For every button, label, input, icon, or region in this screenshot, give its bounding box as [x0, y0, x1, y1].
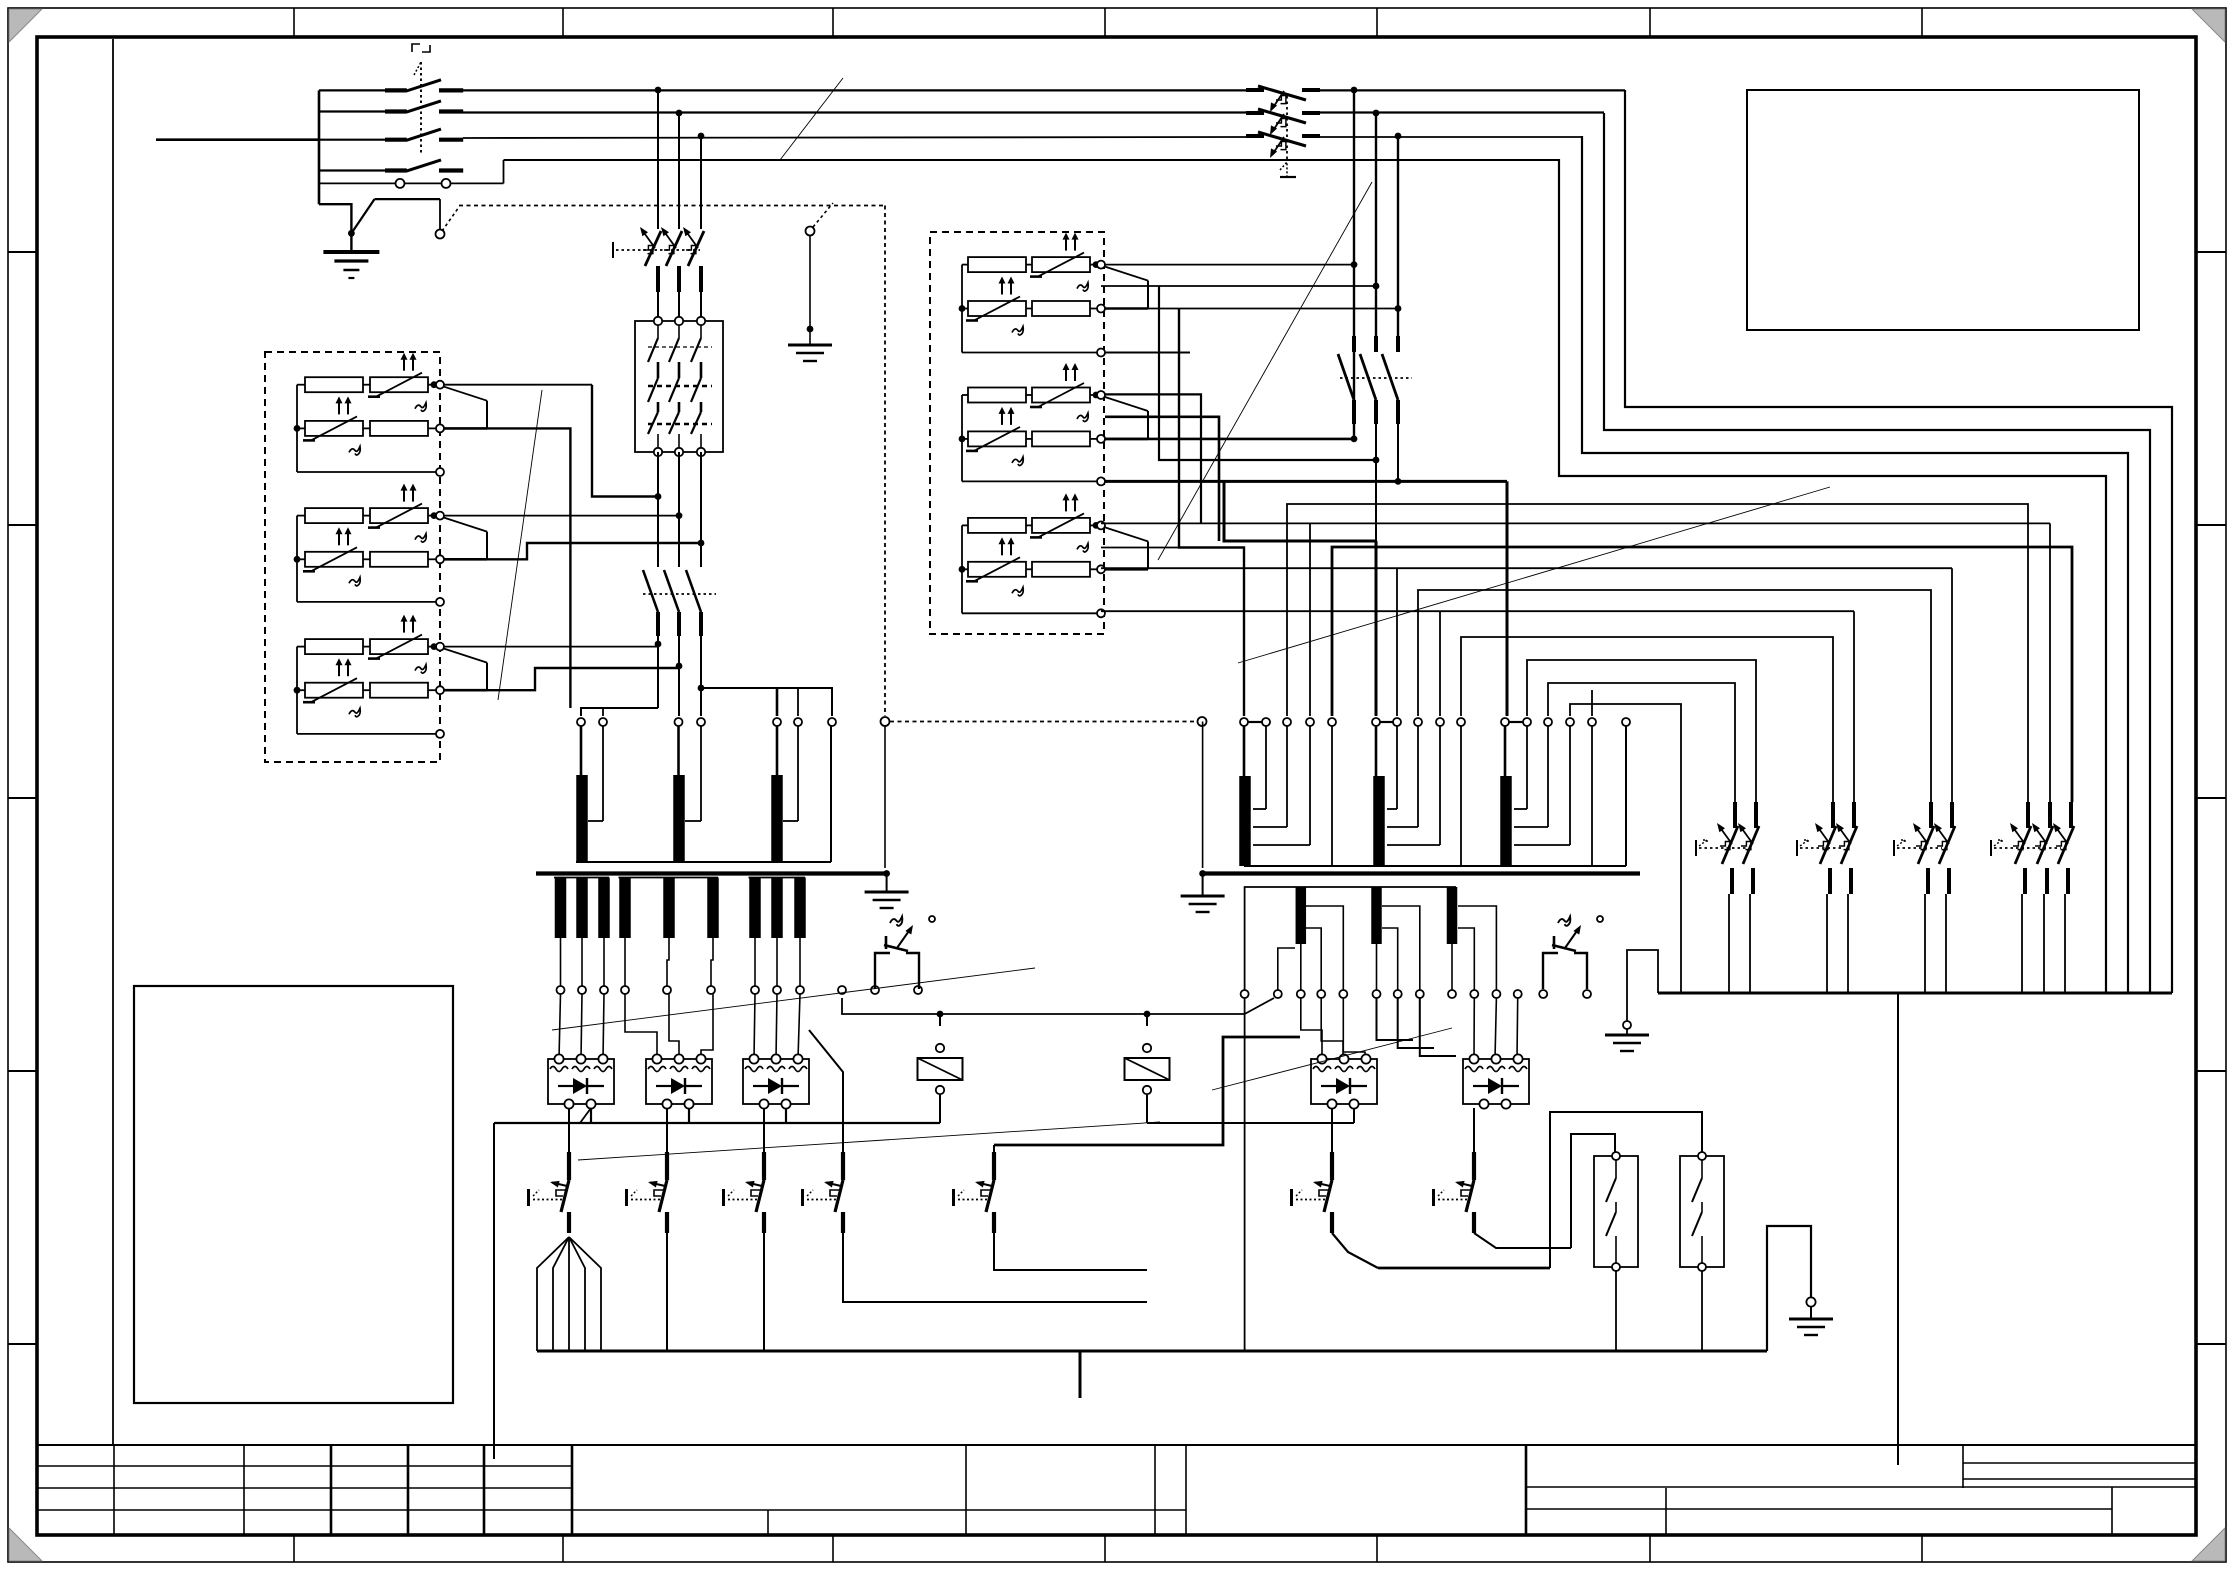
T1 primary terminals [577, 718, 585, 726]
Q2 linkage dotted [1286, 96, 1288, 162]
middle box group 3 [959, 493, 1148, 617]
columns to transformer terminals [657, 636, 659, 708]
dashed branch switch at x808 [806, 227, 815, 236]
Q4 linkage dotted [616, 249, 700, 251]
bus taps for converter transformer T1 [655, 87, 662, 94]
arc wire 1 [1287, 504, 2028, 802]
middle box group3 links [1101, 547, 1179, 549]
elbow link to winding W1 feed [1179, 309, 1244, 717]
breaker QF7 [1434, 1152, 1475, 1233]
breaker QF5 [993, 1145, 995, 1152]
T2 secondary leads [1300, 944, 1302, 990]
title block top line [37, 1444, 2196, 1446]
T2 core bus bar [1203, 871, 1640, 875]
plain drop 1681 [1680, 802, 1682, 993]
relay K3 [1146, 1014, 1148, 1026]
tap T1 from L1 [1351, 87, 1358, 94]
main disconnect switch QS1 [385, 88, 407, 92]
extra terminals near T1 [838, 986, 846, 994]
bus line L2 [319, 110, 385, 112]
earthing switch blade [351, 199, 374, 233]
bus line L3 [319, 139, 385, 141]
U4 bottom leads [1331, 1108, 1333, 1158]
rectifier box U3 [743, 1054, 809, 1108]
U1 output leads [568, 1108, 570, 1158]
tap T3 from L3 [1395, 133, 1402, 140]
stub terminal [1591, 690, 1593, 716]
frame corner triangles [9, 9, 42, 42]
earth link to collector [1627, 950, 1658, 1021]
title block rows left [37, 1465, 572, 1467]
T2 primary bottom return [1244, 865, 1626, 867]
arc wire 2 [1101, 522, 2050, 524]
W2 tap conductor [700, 726, 702, 821]
bus L1 corner loop [1625, 90, 2172, 993]
elbow link to tap T2 lower [1159, 286, 1376, 460]
feeder group at 1696 [1717, 802, 1738, 894]
link y666 from left box g3 horn [487, 668, 679, 690]
arc wire 5 [1418, 590, 1931, 802]
T2 terminal row [1240, 718, 1248, 726]
QF7 outlet [1474, 1233, 1571, 1248]
breaker QF2 [627, 1152, 668, 1233]
station earth E1 [323, 252, 379, 278]
collector right earth [1767, 1226, 1811, 1351]
title block columns left [113, 1445, 115, 1535]
dc link drop at x494 [493, 1123, 495, 1459]
control line dashed to right [442, 207, 459, 231]
breaker QF4 [803, 1152, 844, 1233]
arc wire 9 [1548, 683, 1735, 802]
T1 return riser [830, 726, 832, 862]
T1 secondary leads [560, 938, 562, 986]
tap T2 from L2 [1373, 110, 1380, 117]
distribution collector [1658, 992, 2172, 995]
control link circle at T1 [881, 717, 890, 726]
auxiliary switch with open contacts [319, 182, 395, 184]
rectifier box U5 [1463, 1054, 1529, 1108]
T1 primary winding W1 [580, 726, 583, 775]
QF1 cable fan [537, 1237, 569, 1351]
link from left box g2 to column B [444, 515, 679, 517]
T2 secondary winding bars [1296, 887, 1307, 944]
arc wire 3 [1332, 547, 2072, 802]
T2 primary winding W2 [1375, 726, 1378, 776]
switch cell A [1594, 1156, 1638, 1267]
cell outlets to collector [1615, 1271, 1617, 1351]
link risers to switch cells [1550, 1112, 1702, 1268]
load switch S2 [1543, 916, 1587, 989]
frame zone ticks right [2196, 251, 2226, 253]
T2 primary winding W1 [1243, 726, 1246, 776]
QF5 outlet stub [994, 1233, 1147, 1270]
middle box group1 links to taps [1351, 261, 1358, 268]
middle box group2 links [1101, 394, 1201, 523]
U3 output leads [763, 1108, 765, 1158]
QF4 outlet stub [843, 1233, 1147, 1302]
cabinet outline rectangle [134, 986, 453, 1403]
feeder group at 1991 [2010, 802, 2031, 894]
relay K2 [939, 1014, 941, 1026]
switch cell B [1680, 1156, 1724, 1267]
QS1 linkage dotted [420, 62, 422, 155]
U5 bottom leads [1473, 1108, 1475, 1158]
long drop x1898 [1897, 993, 1899, 1465]
frame zone ticks top [293, 8, 295, 37]
dc link right [1147, 1122, 1354, 1124]
T2 leads to rectifier boxes [1301, 998, 1322, 1059]
feeder group at 1797 [1815, 802, 1836, 894]
disconnect trio Q3 [1352, 336, 1356, 352]
left box group 1 [294, 353, 487, 476]
title block middle cells [572, 1509, 1186, 1511]
breaker QF3 [724, 1152, 765, 1233]
T1 secondary group rails [554, 877, 609, 879]
QS1 actuator bracket [412, 44, 420, 52]
arc wire 4 [1101, 567, 1952, 569]
Q2 linkage end mark [1280, 162, 1287, 176]
W3 tap conductor [797, 726, 799, 821]
T1 primary winding W2 [677, 726, 680, 775]
leads from terminals to rectifier boxes [559, 994, 561, 1059]
T2 bus earth [1202, 874, 1204, 897]
QF6 outlet [1332, 1233, 1378, 1268]
dc link line left [494, 1122, 940, 1124]
earth at dashed branch [788, 345, 832, 361]
T1 primary bottom return [576, 861, 831, 863]
breaker QF6 [1292, 1152, 1333, 1233]
rectifier box U2 [646, 1054, 712, 1108]
feeder group at 1894 [1913, 802, 1934, 894]
middle box group1 return stub [1101, 352, 1190, 354]
Q3 linkage dotted [1340, 377, 1412, 379]
left surge resistor cabinet dashed box [265, 352, 440, 762]
middle box group 2 [959, 363, 1148, 485]
aux line rise to L4 [503, 160, 505, 183]
arc wire 8 [1527, 660, 1756, 802]
T2 return riser [1625, 726, 1627, 866]
link from left box g2 horn to column C [487, 543, 701, 559]
T2 secondary rail [1245, 887, 1456, 994]
switchgear box K1 [635, 321, 723, 452]
arc wire 6 [1101, 610, 1854, 612]
jog column A to winding 1 [581, 708, 658, 716]
disconnect trio Q5 below K1 [657, 560, 659, 567]
link y688 to return riser [701, 688, 832, 716]
control line y1014 [842, 998, 1245, 1014]
bus L2 corner loop [1604, 113, 2150, 993]
frame zone ticks bottom [293, 1535, 295, 1562]
breaker trio Q4 on T1 feed [645, 231, 661, 266]
bus line L4 [319, 169, 385, 171]
diagonal to transformer terminal [1245, 998, 1274, 1014]
T2 secondary jogs [1306, 906, 1343, 990]
left box group 3 [294, 615, 487, 738]
arc wire 10 [1570, 704, 1681, 802]
legend rectangle [1747, 90, 2139, 330]
U2 output leads [666, 1108, 668, 1158]
W1 tap conductor [602, 726, 604, 821]
T1 core bus bar [536, 871, 887, 875]
bus L4 corner loop [1559, 159, 2106, 993]
spare leads [1377, 998, 1414, 1040]
heavy dc link [1378, 1267, 1550, 1270]
title block right cells [1525, 1445, 1528, 1535]
bus line L1 [319, 89, 385, 91]
W2 conductors [1396, 726, 1398, 809]
arc wire 7 [1461, 637, 1833, 802]
T1 bus earth [886, 874, 888, 893]
load switch S1 [875, 916, 919, 989]
heavy feed from middle box to T2 windings [1395, 478, 1402, 485]
T2 secondary terminals [1241, 990, 1249, 998]
feeder stub into bus [156, 138, 319, 141]
rectifier box U4 [1311, 1054, 1377, 1108]
taps continue below Q3 [1375, 424, 1377, 541]
left box group 2 [294, 484, 487, 606]
earthing branch of bus [319, 204, 351, 233]
middle box group 1 [959, 233, 1148, 357]
bus tie bracket [318, 90, 321, 204]
T1 primary winding W3 [776, 726, 779, 775]
terminal pair links [1248, 721, 1262, 723]
lead to col 843 [809, 1030, 843, 1158]
drop from terminal to collector [1244, 998, 1246, 1351]
frame zone ticks left [8, 251, 37, 253]
collector stub down [1079, 1351, 1082, 1398]
crease marks [780, 78, 843, 160]
W3 conductors [1526, 726, 1528, 809]
middle surge resistor cabinet dashed box [930, 232, 1104, 634]
rectifier box U1 [548, 1054, 614, 1108]
link from left box g1 to column A [444, 384, 592, 386]
columns below box K1 [657, 452, 659, 560]
dashed control line across [884, 206, 886, 717]
link y644 from left box g3 [444, 646, 658, 648]
T2 primary winding W3 [1504, 726, 1507, 776]
heavy C link [994, 1037, 1300, 1145]
dc collector bus [537, 1350, 1767, 1353]
breaker QF1 [529, 1152, 570, 1233]
bus L3 corner loop [1582, 136, 2128, 993]
bus inline disconnect trio Q2 [1246, 88, 1264, 92]
Q5 linkage dotted [643, 593, 716, 595]
T1 secondary winding bars [555, 878, 567, 939]
W1 conductors [1265, 726, 1267, 809]
frame margin column divider [112, 39, 114, 1445]
